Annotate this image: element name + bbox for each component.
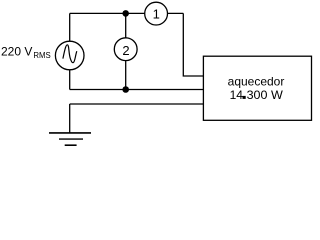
wire top horizontal from source to meter 1	[70, 12, 184, 14]
svg-text:300 W: 300 W	[247, 88, 284, 102]
wire lower horizontal ground return to heater	[70, 103, 204, 105]
svg-text:2: 2	[122, 43, 129, 58]
ground	[49, 133, 91, 145]
node junction bottom	[122, 86, 129, 93]
node junction top	[122, 10, 129, 17]
wire source bottom lead	[69, 70, 71, 89]
wire middle horizontal source bottom to heater	[70, 89, 204, 91]
voltmeter 2	[114, 38, 137, 61]
wire ground lead	[69, 104, 71, 133]
svg-text:14: 14	[230, 88, 244, 102]
wire vertical drop from meter 1 to heater top port	[183, 13, 204, 76]
wire source top lead	[69, 13, 71, 40]
svg-text:1: 1	[153, 6, 160, 21]
AC source V1	[55, 41, 84, 70]
svg-text:aquecedor: aquecedor	[228, 74, 285, 88]
wire meter 2 leads	[125, 13, 127, 89]
ammeter 1	[145, 2, 168, 25]
heater box aquecedor 14.300 W	[203, 56, 311, 120]
